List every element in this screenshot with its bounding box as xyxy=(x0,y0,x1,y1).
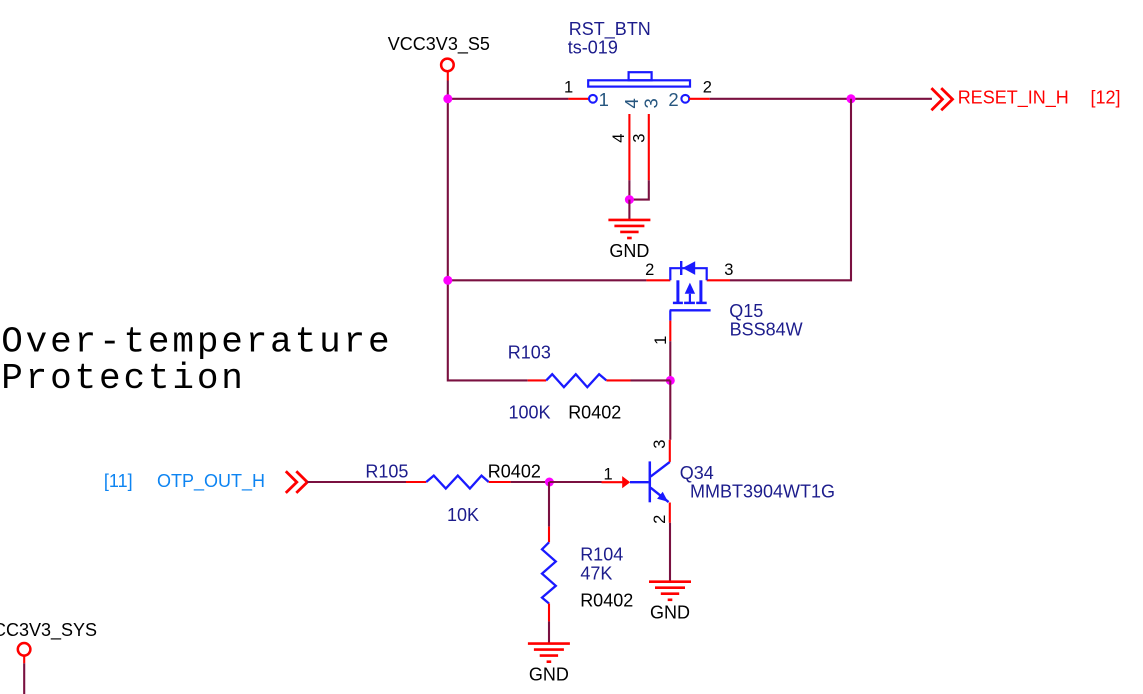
ground GND3 xyxy=(528,644,570,685)
svg-text:R0402: R0402 xyxy=(580,591,633,611)
svg-text:VCC3V3_S5: VCC3V3_S5 xyxy=(388,34,490,55)
power symbol VCC3V3_S5 xyxy=(388,34,490,81)
channel contact right xyxy=(699,280,702,303)
svg-text:4: 4 xyxy=(610,134,628,143)
svg-text:Protection: Protection xyxy=(1,358,246,399)
wire OTP flag to R105 xyxy=(307,481,406,483)
resistor R103 xyxy=(528,374,631,387)
svg-text:1: 1 xyxy=(604,466,613,484)
svg-text:VCC3V3_SYS: VCC3V3_SYS xyxy=(0,620,97,641)
svg-text:2: 2 xyxy=(651,515,669,524)
wire Q15 gate to J5 xyxy=(669,341,671,380)
wire R104 to GND3 xyxy=(548,621,550,643)
svg-text:3: 3 xyxy=(640,98,661,108)
resistor R104 xyxy=(542,527,556,622)
base red arrow xyxy=(622,476,630,488)
channel contact left xyxy=(676,280,679,303)
wire Q34 emitter to GND2 xyxy=(669,523,671,582)
wire J6 down to R104 xyxy=(548,482,550,527)
svg-text:2: 2 xyxy=(645,261,654,279)
svg-text:Q15: Q15 xyxy=(729,301,763,321)
svg-text:OTP_OUT_H: OTP_OUT_H xyxy=(157,471,265,492)
svg-text:R103: R103 xyxy=(508,342,551,362)
svg-text:RESET_IN_H: RESET_IN_H xyxy=(958,88,1069,109)
resistor R105 xyxy=(406,476,511,489)
wire J2 to Q15 pin 2 xyxy=(448,279,647,281)
wire R103 to J5 xyxy=(631,379,671,381)
emitter stub xyxy=(669,503,671,523)
svg-text:R105: R105 xyxy=(365,461,408,481)
wire J2 down and right to R103 xyxy=(448,280,528,380)
bulk arrow xyxy=(685,283,695,294)
svg-text:R104: R104 xyxy=(580,545,623,565)
junction J3 xyxy=(847,94,856,103)
svg-text:4: 4 xyxy=(621,98,642,108)
wire pin4 down to J4 xyxy=(628,180,630,199)
ground GND2 xyxy=(649,582,691,623)
transistor Q34 MMBT3904WT1G xyxy=(602,440,670,523)
svg-text:MMBT3904WT1G: MMBT3904WT1G xyxy=(690,482,835,502)
junction J1 xyxy=(443,94,452,103)
wire J5 down to Q34 collector xyxy=(669,380,671,439)
base line blue xyxy=(630,481,649,483)
wire J1 down left vertical to J2 xyxy=(447,99,449,280)
pin 1 stub xyxy=(669,321,671,342)
base bar xyxy=(649,461,652,502)
svg-text:2: 2 xyxy=(668,89,678,110)
svg-text:Over-temperature: Over-temperature xyxy=(1,321,392,362)
svg-text:Q34: Q34 xyxy=(680,463,714,483)
pin 2 stub xyxy=(646,279,670,281)
svg-text:GND: GND xyxy=(529,665,569,685)
wire button pin2 to J3 xyxy=(710,98,851,100)
input flag chevrons xyxy=(286,471,308,493)
body diode bar xyxy=(680,261,682,275)
MOSFET Q15 BSS84W xyxy=(646,261,730,341)
svg-text:GND: GND xyxy=(650,603,690,623)
section heading Over-temperature Protection xyxy=(1,321,392,399)
pin 3 stub xyxy=(707,279,730,281)
svg-text:47K: 47K xyxy=(580,564,612,584)
channel dashes xyxy=(673,302,683,305)
svg-text:100K: 100K xyxy=(509,403,551,423)
svg-text:3: 3 xyxy=(631,134,649,143)
ground GND1 xyxy=(608,220,650,261)
wire VCC stub to junction J1 xyxy=(447,81,449,99)
base pin red wire xyxy=(602,481,623,483)
svg-text:BSS84W: BSS84W xyxy=(730,320,803,340)
junction J4 xyxy=(625,195,634,204)
body diode triangle xyxy=(683,261,696,275)
svg-text:3: 3 xyxy=(651,440,669,449)
svg-text:[12]: [12] xyxy=(1091,88,1121,108)
wire J3 down and left to Q15 pin 3 xyxy=(730,99,851,280)
svg-text:1: 1 xyxy=(652,336,670,345)
wire J1 to button pin 1 xyxy=(448,98,569,100)
svg-text:1: 1 xyxy=(564,79,573,97)
button pin 4 wire (red) xyxy=(628,114,630,180)
svg-text:R0402: R0402 xyxy=(488,461,541,481)
pushbutton RST_BTN ts-019 xyxy=(568,19,710,103)
button pin 3 wire (red) xyxy=(648,114,650,180)
gate down xyxy=(669,310,671,320)
emitter arrowhead xyxy=(657,492,668,502)
wire R105 to J6 xyxy=(511,481,550,483)
svg-text:[11]: [11] xyxy=(104,471,133,491)
svg-text:GND: GND xyxy=(609,241,649,261)
junction J2 xyxy=(443,276,452,285)
svg-text:R0402: R0402 xyxy=(568,403,621,423)
gate line xyxy=(670,309,711,311)
wire J4 to GND1 xyxy=(628,200,630,220)
wire pin3 down and left to J4 xyxy=(629,180,648,199)
svg-text:ts-019: ts-019 xyxy=(568,38,618,58)
svg-text:1: 1 xyxy=(599,89,609,110)
collector stub xyxy=(669,440,671,462)
junction J6 xyxy=(545,478,554,487)
svg-text:2: 2 xyxy=(703,79,712,97)
wire J3 to output flag xyxy=(851,98,932,100)
wire J6 to Q34 base xyxy=(549,481,601,483)
power symbol VCC3V3_SYS xyxy=(0,620,97,694)
body top loop xyxy=(670,268,706,280)
collector line xyxy=(651,462,670,477)
output flag RESET_IN_H xyxy=(931,88,1120,111)
junction J5 xyxy=(666,376,675,385)
svg-text:10K: 10K xyxy=(447,505,479,525)
svg-text:3: 3 xyxy=(724,261,733,279)
emitter line xyxy=(651,488,669,502)
